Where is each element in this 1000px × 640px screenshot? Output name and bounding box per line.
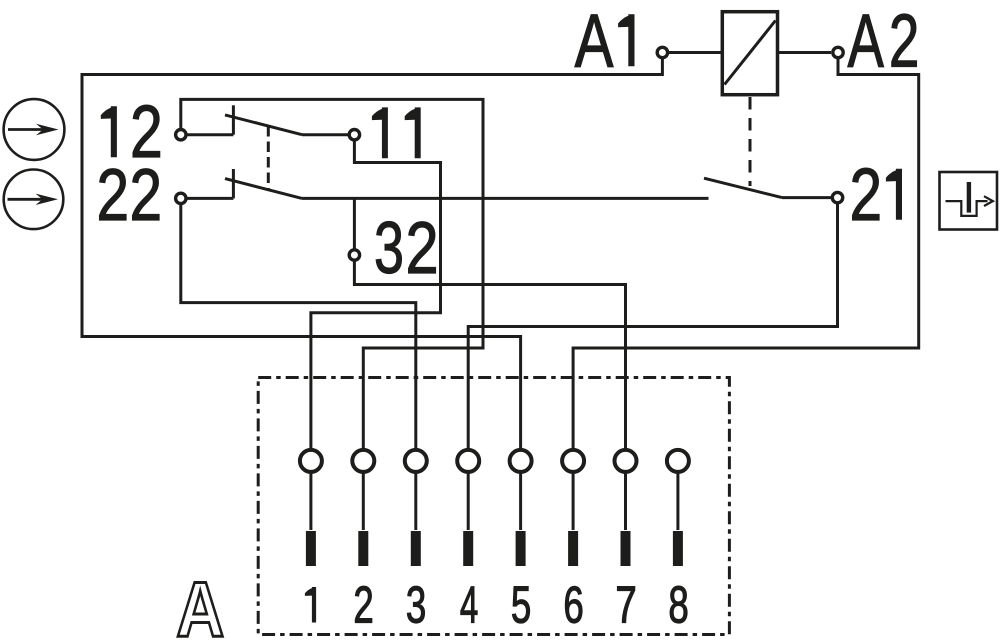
svg-text:A: A	[575, 0, 614, 83]
svg-text:5: 5	[511, 576, 531, 634]
socket pin 6	[568, 531, 578, 566]
terminal 32	[349, 250, 359, 260]
terminal 22	[176, 193, 186, 203]
label 21 digit 1	[886, 169, 902, 220]
socket terminal 5 lead	[519, 473, 522, 530]
socket terminal 6 circle	[562, 450, 584, 472]
svg-text:2: 2	[406, 207, 439, 289]
label 11 digit 1b	[405, 107, 421, 158]
svg-text:2: 2	[850, 153, 883, 236]
socket terminal 4 circle	[457, 450, 479, 472]
pulse symbol box	[940, 172, 998, 230]
socket terminal 4 lead	[467, 473, 470, 530]
socket terminal 1 circle	[300, 450, 322, 472]
wire 11 to terminal 1	[311, 141, 441, 450]
contact blade NC1	[225, 115, 302, 135]
socket terminal 3 lead	[414, 473, 417, 530]
terminal 12	[176, 130, 186, 140]
pulse symbol arrowhead	[984, 196, 993, 206]
socket terminal 6 lead	[572, 473, 575, 530]
socket terminal 8 lead	[676, 473, 679, 530]
contact post NC1	[232, 105, 235, 134]
socket pin 8	[673, 531, 683, 566]
wire 12 to post	[187, 133, 233, 136]
actuator symbol circle 2	[4, 170, 64, 230]
contact blade NC2	[225, 179, 302, 199]
socket label 1	[305, 587, 316, 623]
pulse symbol step line	[946, 201, 988, 216]
socket pin 1	[306, 531, 316, 566]
svg-text:A: A	[176, 565, 224, 640]
actuator arrow 1 shaft	[8, 128, 47, 131]
wire coil to A2	[778, 51, 831, 54]
socket terminal 5 circle	[510, 450, 532, 472]
label 12 digit 1	[101, 106, 117, 157]
wire blade1 to 11	[302, 133, 349, 136]
actuator symbol circle 1	[4, 99, 65, 160]
actuator arrow 1 head	[36, 124, 59, 135]
terminal A2	[833, 47, 843, 57]
wire A2 to terminal 6	[573, 59, 919, 450]
coil actuation dashed	[749, 97, 752, 186]
terminal A1	[657, 47, 667, 57]
wire A1 to terminal 5	[82, 59, 662, 450]
label 11 digit 1a	[372, 107, 388, 158]
contact post NC2	[232, 169, 235, 198]
svg-text:2: 2	[97, 155, 130, 236]
socket pin 4	[463, 531, 473, 566]
svg-text:2: 2	[353, 576, 373, 634]
wire blade2 to contact 21 gap	[302, 197, 709, 200]
relay coil K1 box	[722, 12, 777, 95]
socket pin 3	[411, 531, 421, 566]
socket terminal 3 circle	[405, 450, 427, 472]
contact blade 21	[704, 178, 782, 197]
wire 21 to terminal 4	[468, 204, 837, 450]
wire 32 to terminal 7	[354, 261, 625, 450]
socket pin 2	[358, 531, 368, 566]
socket terminal 2 circle	[352, 450, 374, 472]
svg-text:8: 8	[668, 576, 688, 634]
actuator arrow 2 head	[36, 194, 59, 205]
socket pin 7	[621, 531, 631, 566]
svg-text:2: 2	[130, 155, 163, 236]
svg-text:3: 3	[374, 207, 404, 289]
svg-text:7: 7	[615, 576, 636, 634]
svg-text:6: 6	[563, 576, 583, 634]
mechanical link dashed	[267, 126, 270, 190]
svg-text:2: 2	[889, 0, 920, 83]
pulse symbol bar	[967, 182, 971, 213]
socket pin 5	[516, 531, 526, 566]
socket terminal 8 circle	[667, 450, 689, 472]
label A1 digit 1	[618, 14, 634, 66]
socket terminal 2 lead	[362, 473, 365, 530]
wire 12 to terminal 2	[181, 99, 483, 449]
socket terminal 1 lead	[309, 473, 312, 530]
wire blade 21 to terminal 21	[782, 196, 831, 199]
actuator arrow 2 shaft	[8, 198, 47, 201]
wire A1 coil lead	[668, 51, 722, 54]
svg-text:3: 3	[406, 576, 426, 634]
wire node to 32	[353, 198, 356, 249]
svg-text:A: A	[848, 0, 885, 83]
wire 22 to terminal 3	[181, 205, 416, 450]
svg-text:4: 4	[460, 576, 478, 634]
wire 22 to post	[187, 197, 233, 200]
terminal 11	[349, 130, 359, 140]
socket terminal 7 lead	[624, 473, 627, 530]
plug-in base A dash-dot border	[258, 378, 729, 635]
relay coil K1 diagonal	[725, 21, 776, 85]
terminal 21	[832, 192, 842, 202]
socket terminal 7 circle	[615, 450, 637, 472]
